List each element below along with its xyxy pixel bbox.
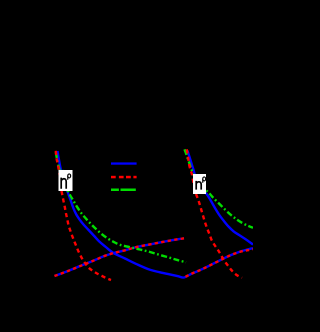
- curve left rising line red dashed overlay: [55, 238, 185, 276]
- legend sample green dash-dot line: [111, 189, 136, 192]
- wire right bundle green top segment: [185, 149, 194, 174]
- curve right bundle blue solid: [194, 175, 253, 245]
- curve left bundle red dashed steep: [62, 191, 112, 280]
- wire left bundle green top segment: [56, 152, 60, 172]
- curve right rising line red dashed overlay: [186, 249, 254, 277]
- curve left bundle blue solid (descends to V then rises to right edge): [63, 170, 253, 278]
- curve right bundle red dashed steep: [196, 194, 242, 278]
- curve left bundle green dash-dot: [62, 170, 186, 262]
- legend sample red dashed line: [111, 176, 137, 179]
- curve right bundle green dash-dot: [193, 174, 253, 228]
- node label box right n^rho: [193, 174, 206, 194]
- wire left bundle blue top segment: [58, 151, 62, 174]
- wire left bundle red top segment: [56, 151, 62, 191]
- curve left rising line blue solid under-layer: [55, 238, 185, 276]
- node label box left n^rho: [59, 170, 73, 191]
- wire right bundle blue top segment: [188, 151, 195, 176]
- wire right bundle red top segment: [187, 149, 196, 194]
- legend sample blue solid line: [111, 162, 137, 164]
